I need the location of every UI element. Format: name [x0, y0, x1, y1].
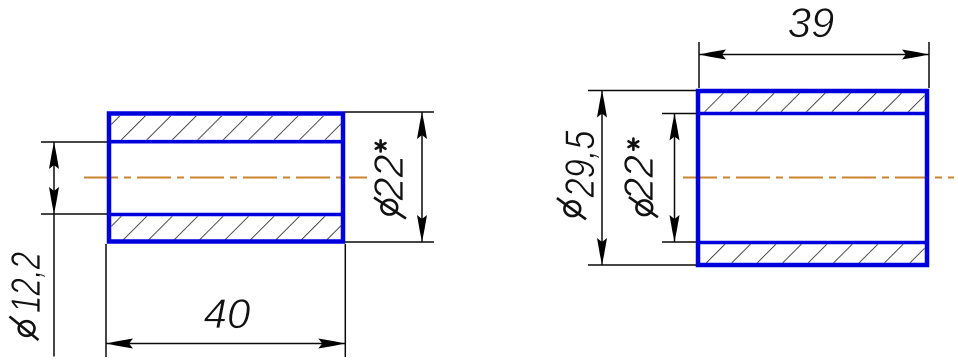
- extension line left: [698, 42, 700, 88]
- extension line bore bottom: [41, 213, 107, 215]
- extension line right: [928, 42, 930, 88]
- arrow down phi12,2: [49, 187, 59, 214]
- extension line bottom: [345, 241, 434, 243]
- bushing outline left: [109, 114, 343, 242]
- dimension phi29,5: [588, 91, 696, 266]
- svg-text:40: 40: [204, 290, 251, 337]
- extension line bore top: [41, 141, 107, 143]
- bore line bottom left: [107, 213, 345, 217]
- svg-text:22: 22: [615, 155, 662, 201]
- hatch top band right: [701, 93, 925, 112]
- arrow down phi22* left: [417, 215, 427, 242]
- extension line left: [105, 244, 107, 357]
- label phi29,5 digits: [556, 130, 603, 198]
- hatch top band left: [112, 116, 342, 140]
- dimension line: [53, 142, 55, 357]
- arrow down phi29,5: [597, 238, 607, 265]
- bore line top left: [107, 140, 345, 144]
- dimension 40: [106, 244, 345, 357]
- label phi22* right diameter symbol: [636, 200, 652, 215]
- extension line right: [344, 244, 346, 357]
- arrow down phi22* right: [670, 215, 680, 242]
- centerline left: [84, 177, 367, 179]
- arrow left 40: [106, 339, 133, 349]
- hatch bottom band right: [701, 244, 925, 262]
- arrow left 39: [699, 50, 726, 60]
- svg-text:12,2: 12,2: [2, 252, 49, 313]
- svg-text:22: 22: [365, 155, 412, 202]
- bore line top right: [696, 112, 929, 116]
- extension line top: [345, 111, 434, 113]
- extension line top: [662, 113, 696, 115]
- arrow up phi22* left: [417, 112, 427, 139]
- extension line bottom: [588, 264, 696, 266]
- label phi22* right digits: [615, 155, 662, 201]
- arrow right 39: [902, 50, 929, 60]
- dimension line: [601, 91, 603, 266]
- label phi12,2 diameter symbol: [19, 321, 35, 336]
- dimension line: [699, 54, 929, 56]
- label phi12,2 digits: [2, 252, 49, 313]
- dimension line: [674, 114, 676, 243]
- arrow up phi12,2: [49, 142, 59, 169]
- extension line bottom: [662, 241, 696, 243]
- label phi29,5 diameter symbol: [564, 201, 580, 216]
- bushing outline right: [698, 91, 927, 265]
- label phi22* right asterisk: [629, 139, 639, 150]
- label phi22* left diameter symbol: [381, 200, 397, 215]
- bore line bottom right: [696, 241, 929, 245]
- dimension phi22* right view: [662, 114, 696, 243]
- dimension 39: [699, 42, 929, 88]
- svg-text:29,5: 29,5: [556, 130, 603, 198]
- extension line top: [588, 90, 696, 92]
- arrow right 40: [318, 339, 345, 349]
- dimension line: [106, 343, 345, 345]
- label phi22* left asterisk: [376, 140, 386, 151]
- dimension phi22* left view: [345, 112, 434, 242]
- svg-text:39: 39: [788, 0, 835, 46]
- centerline right: [683, 177, 954, 179]
- dimension line: [421, 112, 423, 242]
- label phi22* left digits: [365, 155, 412, 202]
- hatch bottom band left: [112, 216, 342, 240]
- arrow up phi29,5: [597, 91, 607, 118]
- arrow up phi22* right: [670, 114, 680, 141]
- dimension phi12,2: [41, 142, 107, 357]
